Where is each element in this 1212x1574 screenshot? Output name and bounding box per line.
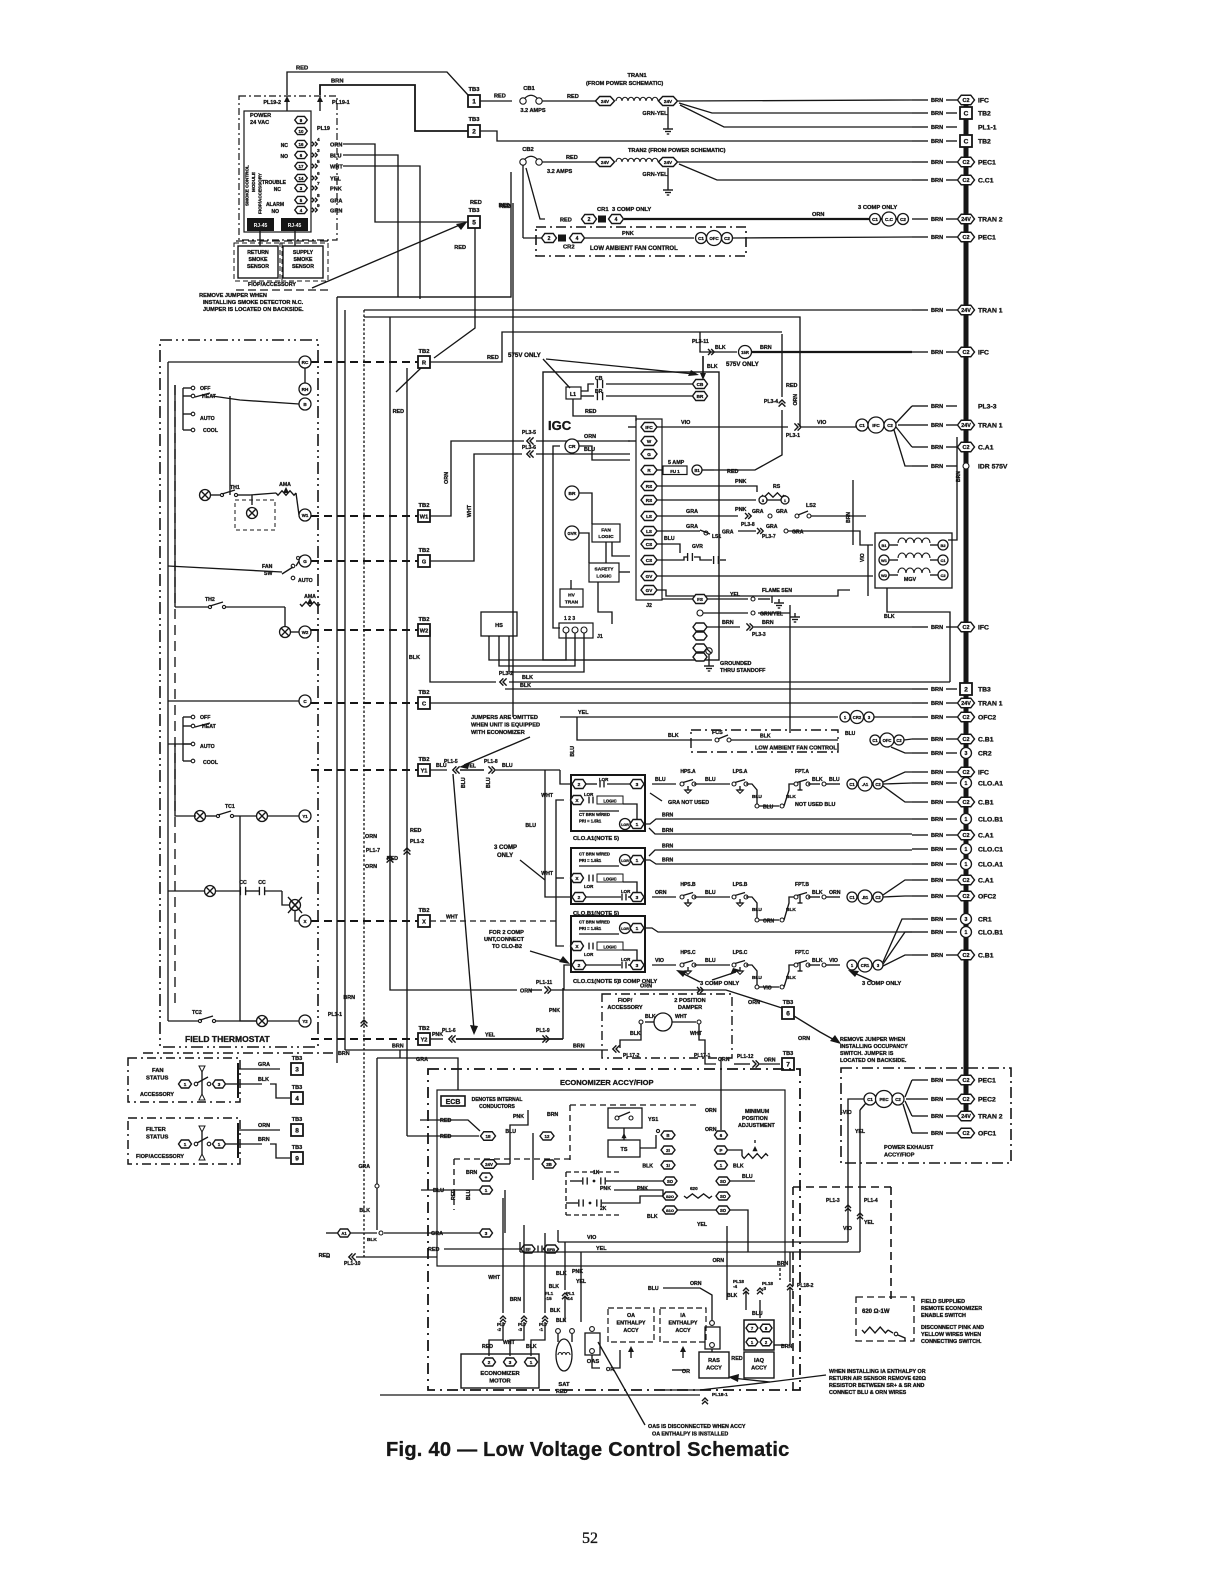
svg-text:TS: TS <box>621 1147 628 1153</box>
svg-text:RED: RED <box>393 409 404 415</box>
svg-text:ORN: ORN <box>655 890 667 896</box>
node PEC1 @y162 <box>912 157 996 167</box>
svg-text:WHEN INSTALLING IA ENTHALPY OR: WHEN INSTALLING IA ENTHALPY OR <box>829 1369 926 1375</box>
svg-text:Y2: Y2 <box>302 1019 308 1024</box>
terminal TB3-6 <box>782 1000 794 1019</box>
svg-text:BLK: BLK <box>367 1237 377 1243</box>
svg-text:BLK: BLK <box>812 958 823 964</box>
econ input RED EF EFB caps <box>428 1245 559 1253</box>
svg-text:LPS.B: LPS.B <box>733 882 748 888</box>
svg-text:14: 14 <box>299 176 304 181</box>
svg-text:3 COMP ONLY: 3 COMP ONLY <box>612 207 651 213</box>
svg-text:6: 6 <box>786 1010 790 1017</box>
svg-text:GRA: GRA <box>776 509 788 515</box>
svg-text:BLK: BLK <box>520 683 531 689</box>
node CLO.A1 @y864 <box>912 859 1003 870</box>
svg-text:SMOKE CONTROL: SMOKE CONTROL <box>245 165 250 206</box>
connector PL3-5 chevron <box>522 430 630 445</box>
svg-text:RED: RED <box>585 409 596 415</box>
svg-text:PNK: PNK <box>637 1186 648 1192</box>
inductor L1 <box>566 387 581 399</box>
fan status sail switch <box>179 1066 239 1100</box>
node PEC2 @y1099 <box>912 1094 996 1104</box>
HV TRAN box <box>560 589 583 607</box>
svg-text:IGC: IGC <box>548 418 572 433</box>
wire BLK long y689 to TB3-2 bus <box>505 683 912 689</box>
svg-text:OFF: OFF <box>200 715 210 721</box>
CS rows gas valve relay caps GVR <box>657 536 726 564</box>
svg-text:5 AMP: 5 AMP <box>668 460 685 466</box>
wire PNK to OFC coil <box>585 231 694 238</box>
svg-text:BRN: BRN <box>931 625 943 631</box>
svg-text:ENTHALPY: ENTHALPY <box>668 1321 697 1327</box>
svg-text:CR1: CR1 <box>978 916 992 923</box>
svg-text:PRI = 1.5k1: PRI = 1.5k1 <box>579 819 602 824</box>
svg-text:TB3: TB3 <box>783 1000 794 1006</box>
svg-text:2 POSITION: 2 POSITION <box>674 998 705 1004</box>
svg-text:IFC: IFC <box>978 349 989 356</box>
fan logic box <box>592 524 620 542</box>
terminal TB2-G <box>418 548 430 567</box>
svg-text:24V: 24V <box>961 308 971 314</box>
svg-text:YEL: YEL <box>578 710 589 716</box>
svg-text:TB3: TB3 <box>469 87 481 93</box>
svg-text:CR2: CR2 <box>978 750 992 757</box>
svg-text:PL1-6: PL1-6 <box>442 1028 456 1034</box>
svg-text:C1: C1 <box>872 217 878 222</box>
svg-text:BRN: BRN <box>931 125 943 131</box>
svg-text:BRN: BRN <box>931 1097 943 1103</box>
svg-text:PL3-8: PL3-8 <box>741 522 755 528</box>
svg-text:2B: 2B <box>546 1162 552 1167</box>
connector PL3-4 chevron <box>764 334 798 407</box>
svg-text:2: 2 <box>964 686 968 693</box>
terminal TB3-1 <box>468 87 480 107</box>
svg-text:JUMPER IS LOCATED ON BACKSIDE.: JUMPER IS LOCATED ON BACKSIDE. <box>203 307 304 313</box>
connectors PL1-3 PL1-4 <box>826 1198 878 1232</box>
svg-text:GV: GV <box>646 574 654 579</box>
svg-text:BRN: BRN <box>392 1044 404 1050</box>
svg-text:WHT: WHT <box>675 1014 688 1020</box>
label MINIMUM POSITION ADJUSTMENT <box>738 1109 776 1129</box>
svg-text:BLU: BLU <box>705 958 716 964</box>
svg-text:FS: FS <box>697 597 703 602</box>
svg-text:PL3-6: PL3-6 <box>522 445 536 451</box>
svg-text:8: 8 <box>317 193 320 199</box>
svg-text:RETURN: RETURN <box>247 250 269 256</box>
svg-text:1I: 1I <box>666 1163 670 1168</box>
svg-text:ORN: ORN <box>793 394 799 406</box>
svg-text:RS: RS <box>646 498 652 503</box>
wire ORN to TB3-8 <box>238 1117 302 1158</box>
svg-text:ORN: ORN <box>764 1058 776 1064</box>
svg-text:PL1-7: PL1-7 <box>366 848 380 854</box>
wire vertical x390 <box>390 317 517 990</box>
svg-text:LS2: LS2 <box>806 503 816 509</box>
compressor lockout CLO.B1 box <box>571 848 646 917</box>
svg-text:3: 3 <box>485 1231 488 1236</box>
wire vertical x407 RED <box>393 368 407 1050</box>
svg-text:TB3: TB3 <box>292 1145 303 1151</box>
svg-text:ORN: ORN <box>584 434 596 440</box>
svg-text:W2: W2 <box>420 628 428 634</box>
wire ORN row to TB3-6 <box>552 984 782 1009</box>
wire RED fuse up to PL3-4 <box>714 410 782 470</box>
relay contact CR1 3 COMP ONLY <box>560 207 651 224</box>
svg-text:3: 3 <box>965 751 968 757</box>
svg-text:ORN: ORN <box>444 472 450 484</box>
svg-text:WHT: WHT <box>541 793 554 799</box>
svg-text:BLU: BLU <box>570 746 576 757</box>
svg-text:TB2: TB2 <box>978 110 991 117</box>
switch YS1 box <box>608 1108 658 1140</box>
node C.A1 @y880 <box>912 875 994 885</box>
svg-text:ORN: ORN <box>798 1036 810 1042</box>
svg-text:TRAN: TRAN <box>565 600 579 606</box>
relay CR circle <box>565 439 579 453</box>
node TRAN 1 @y310 <box>912 305 1003 315</box>
svg-text:R: R <box>422 360 426 366</box>
resistor AMA 2 <box>300 594 320 606</box>
hex SR row 3 <box>647 1206 748 1252</box>
wire RC-RH link <box>168 362 305 383</box>
svg-text:C2: C2 <box>963 178 970 184</box>
svg-text:BLU: BLU <box>584 447 595 453</box>
svg-text:BRN: BRN <box>846 512 852 523</box>
svg-text:BLK: BLK <box>812 777 823 783</box>
svg-text:TB2: TB2 <box>419 690 430 696</box>
wire thermostat W1 to TB2 dashed <box>311 515 418 517</box>
svg-text:C1: C1 <box>849 895 855 900</box>
svg-text:18: 18 <box>485 1134 491 1139</box>
IGC pin W y441 <box>641 437 657 446</box>
fuse 5 AMP FU1 <box>657 460 738 475</box>
svg-text:BLU: BLU <box>752 794 762 800</box>
pointer line to when installing note <box>660 1374 826 1390</box>
svg-text:YELLOW WIRES WHEN: YELLOW WIRES WHEN <box>921 1332 981 1338</box>
svg-text:LS: LS <box>646 514 652 519</box>
svg-text:575V ONLY: 575V ONLY <box>508 352 542 359</box>
svg-text:2: 2 <box>548 236 551 242</box>
svg-text:-15: -15 <box>545 1296 552 1301</box>
svg-text:CLO.A1: CLO.A1 <box>978 780 1003 787</box>
svg-text:WHT: WHT <box>330 165 343 171</box>
label 575V ONLY right and 15R <box>692 339 912 380</box>
svg-text:BRN: BRN <box>931 308 943 314</box>
svg-text:BLK: BLK <box>645 1014 656 1020</box>
terminal TB2-R <box>418 349 430 368</box>
svg-text:ORN: ORN <box>763 919 775 925</box>
svg-text:RED: RED <box>567 94 579 100</box>
wires CLO.C1 outputs BRN <box>645 928 912 932</box>
svg-text:BRN: BRN <box>931 1078 943 1084</box>
note REMOVE JUMPER WHEN INSTALLING SMOKE DETECTOR <box>199 293 304 313</box>
terminal TB3-2 <box>468 117 480 137</box>
svg-text:1 2 3: 1 2 3 <box>564 616 575 622</box>
wire TRAN1 to IFC row <box>678 100 912 101</box>
node C.B1 @y739 <box>912 734 994 744</box>
svg-text:BLU: BLU <box>655 777 666 783</box>
svg-text:4: 4 <box>317 137 320 143</box>
svg-text:POWER: POWER <box>250 113 271 119</box>
component HS box <box>481 612 517 636</box>
svg-text:BRN: BRN <box>931 139 943 145</box>
svg-text:BLU: BLU <box>502 763 513 769</box>
svg-text:GRA: GRA <box>416 1057 428 1063</box>
svg-text:CLO.C1: CLO.C1 <box>978 846 1003 853</box>
svg-text:PEC1: PEC1 <box>978 234 996 241</box>
relay coil CR2 circles <box>840 711 912 724</box>
svg-text:C2: C2 <box>887 423 893 428</box>
flame sensor FS row <box>662 588 792 608</box>
svg-text:TRAN 1: TRAN 1 <box>978 700 1003 707</box>
svg-text:SAFETY: SAFETY <box>595 567 615 573</box>
wire RED from PL19-2 to TB3-1 <box>287 66 468 96</box>
relay BR circle <box>565 486 579 500</box>
node TRAN 2 @y1116 <box>912 1111 1003 1121</box>
svg-text:W1: W1 <box>302 513 309 518</box>
svg-text:PL3-3: PL3-3 <box>978 403 997 410</box>
svg-text:OFF: OFF <box>200 386 210 392</box>
svg-text:TB2: TB2 <box>419 617 430 623</box>
svg-text:HPS.A: HPS.A <box>680 769 696 775</box>
svg-text:BRN: BRN <box>573 1044 585 1050</box>
svg-text:BRN: BRN <box>931 217 943 223</box>
svg-text:WHT: WHT <box>690 1031 703 1037</box>
svg-text:BRN: BRN <box>777 1261 788 1267</box>
svg-text:BR: BR <box>697 394 704 399</box>
IGC BRN output hexes to PL3-3 <box>693 620 912 661</box>
svg-text:CR2: CR2 <box>563 245 575 251</box>
svg-text:TB3: TB3 <box>292 1085 303 1091</box>
node OFC2 @y717 <box>912 712 996 722</box>
svg-text:DENOTES INTERNAL: DENOTES INTERNAL <box>472 1097 523 1103</box>
svg-text:GRN-YEL: GRN-YEL <box>642 172 668 178</box>
svg-text:BRN: BRN <box>760 345 772 351</box>
svg-text:WHT: WHT <box>467 504 473 517</box>
node PL3-3 @y406 <box>912 403 997 410</box>
svg-text:ACCY: ACCY <box>706 1366 722 1372</box>
label IGC <box>548 418 572 433</box>
svg-text:RED: RED <box>731 1356 742 1362</box>
wire RED CB1 to TRAN1 <box>542 94 596 101</box>
svg-text:BRN: BRN <box>931 1114 943 1120</box>
svg-text:LOGIC: LOGIC <box>598 534 614 540</box>
svg-text:+: + <box>485 1175 488 1180</box>
econ plus hex <box>480 1173 493 1181</box>
terminal C left <box>299 695 311 707</box>
node OFC2 @y896 <box>912 891 996 901</box>
compressor caps CC CC <box>168 880 282 897</box>
svg-text:CR: CR <box>569 444 576 450</box>
svg-text:BR: BR <box>595 389 603 395</box>
svg-text:620 Ω-1W: 620 Ω-1W <box>862 1309 890 1315</box>
terminal TB3-5 <box>468 208 480 228</box>
power exhaust dash-dot box <box>841 1068 1011 1163</box>
return smoke sensor box <box>238 231 278 278</box>
note REMOVE JUMPER OCCUPANCY SWITCH <box>840 1037 908 1064</box>
svg-text:3: 3 <box>509 1360 512 1365</box>
node PEC1 @y1080 <box>912 1075 996 1085</box>
wires PEC fanout <box>903 1080 912 1133</box>
wires IFC coil fanout to bus rows <box>856 406 912 466</box>
wire vertical x337 <box>336 297 338 1063</box>
svg-text:YEL: YEL <box>864 1220 875 1226</box>
svg-text:GRA: GRA <box>686 509 698 515</box>
svg-text:BLU: BLU <box>648 1286 659 1292</box>
svg-text:BLU: BLU <box>433 1188 444 1194</box>
IGC pin RS y500 <box>641 496 657 505</box>
svg-text:3 COMP: 3 COMP <box>494 845 517 851</box>
svg-text:RED: RED <box>410 828 421 834</box>
svg-text:RED: RED <box>494 94 506 100</box>
resistor 620 ohm dashed box <box>856 1297 914 1341</box>
svg-text:FIOP/ACCESSORY: FIOP/ACCESSORY <box>248 282 296 288</box>
svg-text:SMOKE: SMOKE <box>248 257 268 263</box>
svg-text:GRA: GRA <box>258 1062 270 1068</box>
wire heat switch to B <box>168 362 299 920</box>
svg-text:VIO: VIO <box>860 553 866 562</box>
svg-text:YS1: YS1 <box>648 1117 658 1123</box>
svg-text:FIOP/: FIOP/ <box>618 998 633 1004</box>
svg-text:PL18-1: PL18-1 <box>712 1392 728 1398</box>
wire TRAN2 to PEC1 row y162 <box>678 161 912 163</box>
svg-text:FCS: FCS <box>712 730 723 736</box>
svg-text:RED: RED <box>428 1247 439 1253</box>
svg-text:THRU STANDOFF: THRU STANDOFF <box>720 668 766 674</box>
svg-text:PRI = 1.5k1: PRI = 1.5k1 <box>579 926 602 931</box>
econ hex column mid <box>642 1131 675 1170</box>
IGC pin CS y544 <box>641 540 657 549</box>
svg-text:RED: RED <box>499 203 510 209</box>
svg-text:C1: C1 <box>940 558 946 563</box>
svg-text:ECONOMIZER ACCY/FIOP: ECONOMIZER ACCY/FIOP <box>560 1078 653 1087</box>
svg-text:GRN: GRN <box>330 209 342 215</box>
capacitor 1K row <box>570 1170 663 1185</box>
svg-text:VIO: VIO <box>587 1235 596 1241</box>
svg-text:TROUBLE: TROUBLE <box>262 180 287 186</box>
svg-text:NO: NO <box>272 209 280 215</box>
terminal X left <box>299 915 311 927</box>
svg-text:RESISTOR BETWEEN SR+ & SR AND: RESISTOR BETWEEN SR+ & SR AND <box>829 1383 925 1389</box>
svg-text:BLU: BLU <box>330 154 342 160</box>
label POWER 24 VAC <box>250 113 271 126</box>
svg-text:RED: RED <box>296 66 308 72</box>
svg-text:TH2: TH2 <box>205 597 215 603</box>
terminal TB2-W2 <box>418 617 430 636</box>
svg-text:BLK: BLK <box>526 1344 537 1350</box>
pressure switch chain A HPS.A LPS.A FPT.A <box>650 769 912 811</box>
svg-text:C2: C2 <box>963 800 970 806</box>
svg-text:RED: RED <box>482 1344 493 1350</box>
field thermostat outer dash-dot box <box>160 340 318 1047</box>
sensor SAT oval <box>556 1329 575 1388</box>
connector PL3-2 chevron BLK wire <box>499 671 950 686</box>
svg-text:C2: C2 <box>963 953 970 959</box>
svg-text:IFC: IFC <box>645 425 653 430</box>
wire TB2-W1 to IGC W ORN <box>430 441 524 516</box>
svg-text:3.2 AMPS: 3.2 AMPS <box>520 108 546 114</box>
svg-text:NC: NC <box>274 187 282 193</box>
svg-text:C2: C2 <box>963 350 970 356</box>
svg-text:C.A1: C.A1 <box>978 832 994 839</box>
svg-text:BLK: BLK <box>642 1164 653 1170</box>
svg-text:GROUNDED: GROUNDED <box>720 661 752 667</box>
svg-text:BLU: BLU <box>461 777 467 788</box>
svg-text:ORN: ORN <box>365 834 377 840</box>
svg-text:INSTALLING OCCUPANCY: INSTALLING OCCUPANCY <box>840 1044 908 1050</box>
wire ORN PL1-11 row <box>520 965 571 995</box>
svg-text:PNK: PNK <box>513 1114 524 1120</box>
resistor AMA 1 <box>250 482 299 515</box>
svg-text:BLK: BLK <box>733 1164 744 1170</box>
svg-text:24V: 24V <box>485 1162 493 1167</box>
svg-text:BLK: BLK <box>630 1031 641 1037</box>
svg-text:A1: A1 <box>341 1231 347 1236</box>
svg-text:MINIMUM: MINIMUM <box>745 1109 770 1115</box>
connectors PL18-4 PL18-3 PL18-2 <box>727 1261 814 1345</box>
svg-text:PL3-3: PL3-3 <box>752 632 766 638</box>
node PL1-1 @y127 <box>912 124 997 131</box>
svg-text:9: 9 <box>317 203 320 209</box>
ground GRN-YEL TRAN2 <box>642 168 673 195</box>
svg-text:JUMPERS ARE OMITTED: JUMPERS ARE OMITTED <box>471 715 538 721</box>
svg-text:BRN: BRN <box>931 737 943 743</box>
svg-text:ORN: ORN <box>712 1258 724 1264</box>
svg-text:WHT: WHT <box>541 871 554 877</box>
svg-text:RED: RED <box>487 355 499 361</box>
svg-text:GRA: GRA <box>358 1164 370 1170</box>
svg-text:BLU: BLU <box>763 805 774 811</box>
svg-text:PL1-8: PL1-8 <box>484 759 498 765</box>
wires HS to IGC <box>489 633 584 672</box>
svg-text:GRA: GRA <box>766 524 778 530</box>
connector PL1-7 arrow on x388 ORN <box>365 834 393 870</box>
svg-text:CLO.A1: CLO.A1 <box>978 861 1003 868</box>
node TRAN 2 @y219 <box>912 214 1003 224</box>
svg-text:FIOP/ACCESSORY: FIOP/ACCESSORY <box>136 1154 184 1160</box>
svg-text:IDR 575V: IDR 575V <box>978 463 1008 470</box>
wires CLO.B1 outputs BRN <box>645 844 912 865</box>
svg-text:Fig. 40 — Low Voltage Control: Fig. 40 — Low Voltage Control Schematic <box>386 1439 790 1461</box>
svg-text:ORN: ORN <box>812 212 824 218</box>
svg-text:C2: C2 <box>963 770 970 776</box>
wire VIO into PEC <box>841 1099 866 1252</box>
wire BLU from smoke module <box>343 155 398 297</box>
svg-text:2: 2 <box>488 1360 491 1365</box>
svg-text:IFC: IFC <box>978 769 989 776</box>
svg-text:1K: 1K <box>593 1170 600 1176</box>
svg-text:24V: 24V <box>961 701 971 707</box>
wire horizontal y297 <box>337 296 511 298</box>
svg-text:C.A1: C.A1 <box>978 877 994 884</box>
svg-text:LOR: LOR <box>584 884 594 889</box>
svg-text:3: 3 <box>317 148 320 154</box>
IAQ ACCY box <box>731 1352 774 1378</box>
supply smoke sensor box <box>283 231 323 278</box>
cool stage TC2 <box>168 1010 256 1023</box>
svg-text:5: 5 <box>317 159 320 165</box>
node IFC @y627 <box>912 622 989 632</box>
heat stage TH1 <box>200 485 251 501</box>
svg-text:24 VAC: 24 VAC <box>250 120 269 126</box>
svg-text:3: 3 <box>218 1082 221 1087</box>
svg-text:BLK: BLK <box>258 1077 269 1083</box>
svg-text:REMOVE JUMPER WHEN: REMOVE JUMPER WHEN <box>199 293 267 299</box>
svg-text:LOR: LOR <box>621 823 629 827</box>
svg-text:CLO.B1: CLO.B1 <box>978 929 1003 936</box>
svg-text:24V: 24V <box>664 160 673 165</box>
